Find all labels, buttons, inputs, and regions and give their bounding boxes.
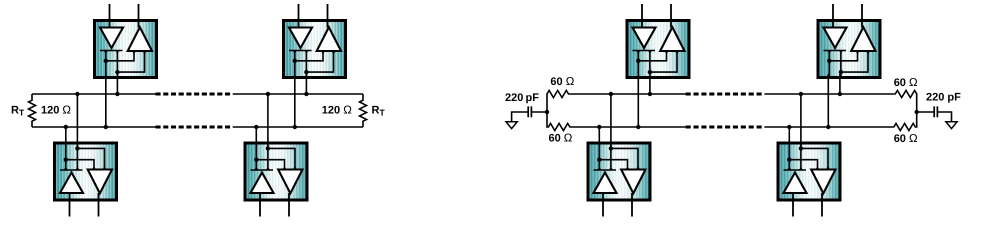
ground left <box>506 122 517 129</box>
capacitor C1 (220 pF) left wires <box>512 112 547 122</box>
wire U8 pin A to bottom bus <box>788 127 790 146</box>
svg-text:60 Ω: 60 Ω <box>550 76 574 88</box>
ground right <box>946 122 957 129</box>
transceiver U6 (top-right) <box>818 4 880 79</box>
wire U7 pin B to top bus <box>610 94 612 146</box>
junction U1-A <box>104 125 108 129</box>
junction U8-B <box>799 92 803 96</box>
svg-text:60 Ω: 60 Ω <box>894 77 918 89</box>
junction U5-B <box>648 92 652 96</box>
node right termination <box>915 110 919 114</box>
junction U2-A <box>293 125 297 129</box>
wire U8 pin B to top bus <box>800 94 802 146</box>
node left termination <box>545 110 549 114</box>
wire U5 pin A to bottom bus <box>637 74 639 127</box>
junction U3-B <box>75 92 79 96</box>
junction U6-B <box>838 92 842 96</box>
resistor 60 ohm top-right with joining wire <box>894 90 917 130</box>
wire U2 pin B to top bus <box>305 74 307 94</box>
wire bus line B (bottom) solid right <box>764 126 893 128</box>
junction U4-A <box>254 125 258 129</box>
wire U6 pin B to top bus <box>839 74 841 94</box>
wire bus line B (bottom) solid left <box>570 126 686 128</box>
wire U4 pin B to top bus <box>267 94 269 146</box>
junction U3-A <box>64 125 68 129</box>
transceiver U2 (top-right) <box>284 4 346 79</box>
svg-text:RT: RT <box>11 105 25 118</box>
wire U5 pin B to top bus <box>649 74 651 94</box>
junction U6-A <box>826 125 830 129</box>
junction U1-B <box>115 92 119 96</box>
wire U1 pin A to bottom bus <box>105 74 107 127</box>
transceiver U7 (bottom-left) <box>588 142 650 217</box>
junction U5-A <box>636 125 640 129</box>
wire U3 pin B to top bus <box>76 94 78 146</box>
resistor RT right (120 ohm) <box>360 94 367 127</box>
transceiver U3 (bottom-left) <box>55 142 117 217</box>
wire bus line A (top) solid right <box>764 93 893 95</box>
svg-text:60 Ω: 60 Ω <box>894 133 918 145</box>
junction U2-B <box>304 92 308 96</box>
svg-text:120 Ω: 120 Ω <box>322 105 352 117</box>
svg-text:60 Ω: 60 Ω <box>549 132 573 144</box>
svg-text:220 pF: 220 pF <box>505 92 539 104</box>
wire U7 pin A to bottom bus <box>598 127 600 146</box>
capacitor C2 plates <box>934 106 937 117</box>
transceiver U1 (top-left) <box>95 4 157 79</box>
transceiver U8 (bottom-right) <box>778 142 840 217</box>
wire U1 pin B to top bus <box>116 74 118 94</box>
svg-text:220 pF: 220 pF <box>926 92 961 104</box>
resistor 60 ohm top-left with joining wire <box>547 90 570 130</box>
transceiver U4 (bottom-right) <box>245 142 307 217</box>
wire bus line B (bottom) dashed middle <box>156 126 233 129</box>
wire U2 pin A to bottom bus <box>294 74 296 127</box>
wire bus line B (bottom) solid right <box>233 126 363 128</box>
junction U7-B <box>609 92 613 96</box>
transceiver U5 (top-left) <box>627 4 689 79</box>
capacitor C1 plates <box>528 106 531 117</box>
svg-text:120 Ω: 120 Ω <box>41 105 71 117</box>
resistor RT left (120 ohm) <box>29 94 36 127</box>
wire bus line A (top) solid left <box>570 93 686 95</box>
svg-text:RT: RT <box>372 105 386 118</box>
wire U4 pin A to bottom bus <box>255 127 257 146</box>
wire U3 pin A to bottom bus <box>65 127 67 146</box>
junction U8-A <box>787 125 791 129</box>
wire bus line B (bottom) dashed middle <box>686 126 765 129</box>
capacitor C2 (220 pF) right wires <box>917 112 952 122</box>
wire bus line A (top) solid right <box>233 93 363 95</box>
junction U4-B <box>266 92 270 96</box>
wire bus line A (top) solid left <box>32 93 156 95</box>
wire bus line A (top) dashed middle <box>156 93 233 96</box>
wire U6 pin A to bottom bus <box>827 74 829 127</box>
junction U7-A <box>597 125 601 129</box>
wire bus line A (top) dashed middle <box>686 93 765 96</box>
wire bus line B (bottom) solid left <box>32 126 156 128</box>
